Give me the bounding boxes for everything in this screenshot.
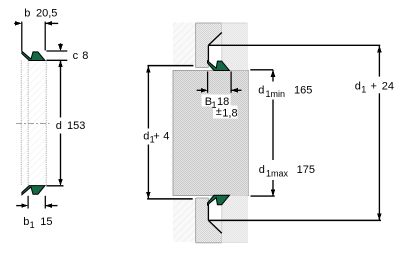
label B1 18 with tolerance (202, 95, 231, 107)
svg-text:d: d (258, 85, 264, 97)
svg-text:1,8: 1,8 (222, 108, 237, 120)
wall bore line top (147, 65, 193, 67)
svg-text:+: + (371, 80, 377, 92)
svg-text:15: 15 (40, 216, 52, 228)
bottom lip (green) (22, 186, 45, 195)
collar chamfer edge bottom (208, 198, 221, 233)
arrow b1 left (21, 203, 28, 208)
arrow c bottom (58, 60, 63, 67)
arrow d bottom (58, 179, 63, 186)
svg-text:153: 153 (67, 120, 85, 132)
dimension B1 18 (197, 72, 242, 93)
svg-text:+: + (153, 130, 159, 142)
arrow B1 left (201, 88, 208, 93)
V-ring seal bottom (green) (208, 195, 230, 205)
dimension b 20,5 (14, 22, 58, 51)
seal body (hatched) (21, 61, 46, 186)
svg-text:±: ± (216, 106, 222, 118)
arrow d1+24 top (377, 46, 382, 53)
arrow d1max (271, 189, 276, 196)
svg-text:d: d (355, 80, 361, 92)
dimension c 8 (46, 43, 67, 60)
svg-text:b: b (24, 8, 30, 20)
arrow b right (45, 21, 52, 26)
collar chamfer edge top (208, 33, 221, 68)
wall bore line bottom (147, 198, 193, 200)
svg-text:1min: 1min (266, 89, 286, 99)
svg-text:b: b (23, 216, 29, 228)
dimension d1+4 (147, 66, 149, 199)
dimension d1+24 (378, 45, 380, 220)
svg-text:1max: 1max (266, 168, 289, 178)
svg-text:175: 175 (297, 164, 315, 176)
housing wall top (faint hatch) (173, 23, 196, 66)
svg-text:1: 1 (30, 220, 35, 230)
svg-text:c: c (73, 50, 79, 62)
chamfer cut area hatch bottom (208, 220, 221, 233)
svg-text:1: 1 (361, 84, 366, 94)
svg-text:165: 165 (294, 85, 312, 97)
back ring bottom (light block) (222, 196, 247, 243)
svg-text:4: 4 (163, 130, 169, 142)
back ring top (light block) (222, 23, 247, 70)
arrow b left (15, 21, 22, 26)
svg-text:d: d (259, 164, 265, 176)
top lip (green) (22, 51, 45, 60)
chamfer cut area hatch top (208, 33, 221, 46)
arrow d1+4 top (146, 66, 151, 73)
svg-text:d: d (143, 130, 149, 142)
arrow c top (58, 44, 63, 51)
shaft (dithered) (173, 70, 249, 195)
V-ring seal top (green) (208, 61, 230, 71)
counterface reference line top (long) (208, 44, 380, 46)
housing wall bottom (faint hatch) (173, 199, 196, 242)
arrow b1 right (45, 203, 52, 208)
counterface reference line bottom (long) (208, 219, 381, 221)
svg-text:8: 8 (82, 50, 88, 62)
svg-text:24: 24 (382, 80, 394, 92)
svg-text:d: d (56, 120, 62, 132)
collar top (dither column) (196, 23, 222, 68)
dimension d 153 (46, 60, 63, 186)
svg-text:20,5: 20,5 (36, 8, 57, 20)
dimension d1max 175 (251, 180, 275, 196)
arrow d1min (271, 70, 276, 77)
arrow d1+24 bottom (377, 213, 382, 220)
collar bottom (dither column) (196, 198, 222, 243)
centerline of seal body (16, 123, 50, 125)
dimension b1 15 (16, 196, 57, 209)
dimension d1min 165 (250, 70, 273, 160)
arrow d1+4 bottom (146, 192, 151, 199)
arrow B1 right (231, 88, 238, 93)
